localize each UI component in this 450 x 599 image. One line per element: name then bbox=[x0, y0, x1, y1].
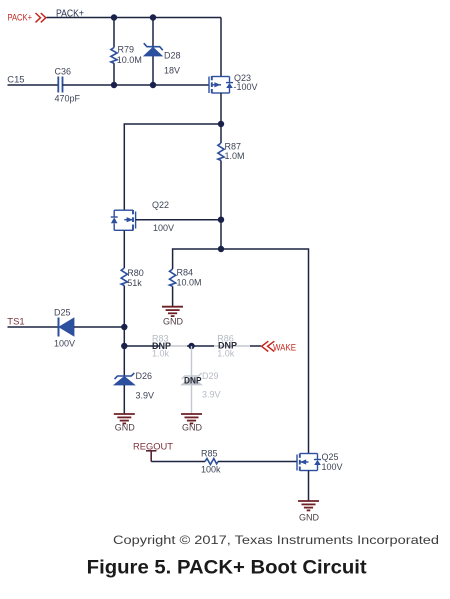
svg-text:1.0M: 1.0M bbox=[225, 151, 245, 161]
ground GND (R84) bbox=[162, 307, 184, 327]
svg-text:1.0k: 1.0k bbox=[217, 349, 235, 359]
diode D25 bbox=[54, 308, 75, 349]
node junction DNP row bbox=[121, 343, 127, 349]
svg-text:10.0M: 10.0M bbox=[117, 55, 142, 65]
svg-text:Copyright © 2017, Texas Instru: Copyright © 2017, Texas Instruments Inco… bbox=[113, 533, 439, 547]
ground GND (D26) bbox=[114, 414, 136, 433]
svg-text:470pF: 470pF bbox=[55, 94, 81, 104]
svg-text:R85: R85 bbox=[201, 449, 218, 459]
node junction D29 bbox=[188, 343, 194, 349]
zener diode D29 (DNP, gray) bbox=[181, 346, 220, 414]
svg-text:Q25: Q25 bbox=[322, 452, 339, 462]
wire REGOUT row bbox=[151, 461, 205, 463]
wire C15 row right to Q23 gate bbox=[63, 84, 209, 86]
wire Q22 top branch bbox=[124, 124, 221, 210]
port PACK+ (off-page connector, red) bbox=[8, 13, 46, 24]
wire Q25 source to GND bbox=[308, 471, 310, 502]
ground GND (D29) bbox=[181, 414, 203, 433]
svg-text:TS1: TS1 bbox=[7, 317, 24, 328]
svg-text:D26: D26 bbox=[136, 371, 153, 381]
svg-text:PACK+: PACK+ bbox=[8, 13, 33, 24]
svg-text:100V: 100V bbox=[322, 462, 343, 472]
svg-text:C15: C15 bbox=[7, 75, 24, 86]
wire Q22 gate to rail bbox=[136, 219, 221, 221]
port REGOUT bbox=[133, 442, 173, 462]
svg-text:3.9V: 3.9V bbox=[136, 391, 155, 401]
svg-text:100k: 100k bbox=[201, 465, 221, 475]
svg-text:R84: R84 bbox=[177, 268, 194, 278]
svg-text:-100V: -100V bbox=[234, 82, 258, 92]
wire right rail upper bbox=[220, 18, 222, 77]
wire rail to row 249 bbox=[220, 220, 222, 249]
wire C15 row left bbox=[8, 84, 59, 86]
svg-text:DNP: DNP bbox=[184, 376, 202, 386]
resistor R87 bbox=[218, 124, 245, 220]
svg-text:Q22: Q22 bbox=[152, 200, 169, 210]
wire junction down bbox=[123, 327, 125, 346]
transistor Q22 (P-ch MOSFET, mirrored) bbox=[111, 200, 174, 233]
zener diode D28 bbox=[144, 18, 181, 85]
svg-text:10.0M: 10.0M bbox=[177, 278, 202, 288]
wire Q23 drain down bbox=[220, 93, 222, 124]
resistor R85 bbox=[201, 449, 221, 475]
svg-text:Figure 5. PACK+ Boot Circuit: Figure 5. PACK+ Boot Circuit bbox=[87, 558, 368, 579]
wire to Q25 drain rail bbox=[221, 249, 309, 454]
node junction C15 row D28 bbox=[150, 82, 156, 88]
wire D25 to junction bbox=[74, 326, 124, 328]
node junction row 249 bbox=[218, 246, 224, 252]
svg-text:D25: D25 bbox=[54, 308, 71, 318]
wire TS1 row bbox=[8, 326, 59, 328]
svg-text:R79: R79 bbox=[118, 45, 135, 55]
svg-text:GND: GND bbox=[115, 423, 136, 433]
svg-text:GND: GND bbox=[182, 423, 203, 433]
port WAKE (off-page connector, red) bbox=[262, 341, 296, 353]
svg-text:D29: D29 bbox=[202, 371, 219, 381]
capacitor C36 bbox=[55, 67, 81, 104]
node junction top D28 bbox=[150, 14, 156, 20]
resistor R86 (DNP) bbox=[192, 333, 262, 358]
resistor R84 bbox=[170, 268, 202, 307]
svg-text:18V: 18V bbox=[164, 66, 180, 76]
node junction Q23 drain bbox=[218, 121, 224, 127]
wire R84 branch bbox=[173, 249, 221, 269]
svg-text:R87: R87 bbox=[225, 142, 242, 152]
resistor R80 bbox=[121, 230, 144, 327]
svg-text:C36: C36 bbox=[55, 67, 72, 77]
zener diode D26 bbox=[114, 346, 154, 414]
svg-text:WAKE: WAKE bbox=[273, 343, 296, 353]
node junction TS1 row bbox=[121, 324, 127, 330]
svg-text:100V: 100V bbox=[153, 223, 174, 233]
svg-text:GND: GND bbox=[163, 317, 184, 327]
svg-text:51k: 51k bbox=[127, 278, 142, 288]
node junction C15 row R79 bbox=[111, 82, 117, 88]
transistor Q23 (P-ch MOSFET) bbox=[209, 73, 258, 93]
wire R85 to Q25 gate bbox=[218, 461, 297, 463]
wire top rail PACK+ bbox=[47, 17, 222, 19]
resistor R79 bbox=[111, 18, 142, 85]
ground GND (Q25) bbox=[298, 501, 320, 523]
svg-text:1.0k: 1.0k bbox=[152, 349, 170, 359]
node junction Q22 gate bbox=[218, 217, 224, 223]
resistor R83 (DNP) bbox=[124, 333, 191, 358]
svg-text:GND: GND bbox=[299, 513, 320, 523]
svg-text:3.9V: 3.9V bbox=[202, 390, 221, 400]
transistor Q25 (N-ch MOSFET) bbox=[297, 452, 343, 472]
svg-text:100V: 100V bbox=[54, 339, 75, 349]
svg-text:R80: R80 bbox=[127, 268, 144, 278]
node junction top R79 bbox=[111, 14, 117, 20]
svg-text:D28: D28 bbox=[164, 51, 181, 61]
